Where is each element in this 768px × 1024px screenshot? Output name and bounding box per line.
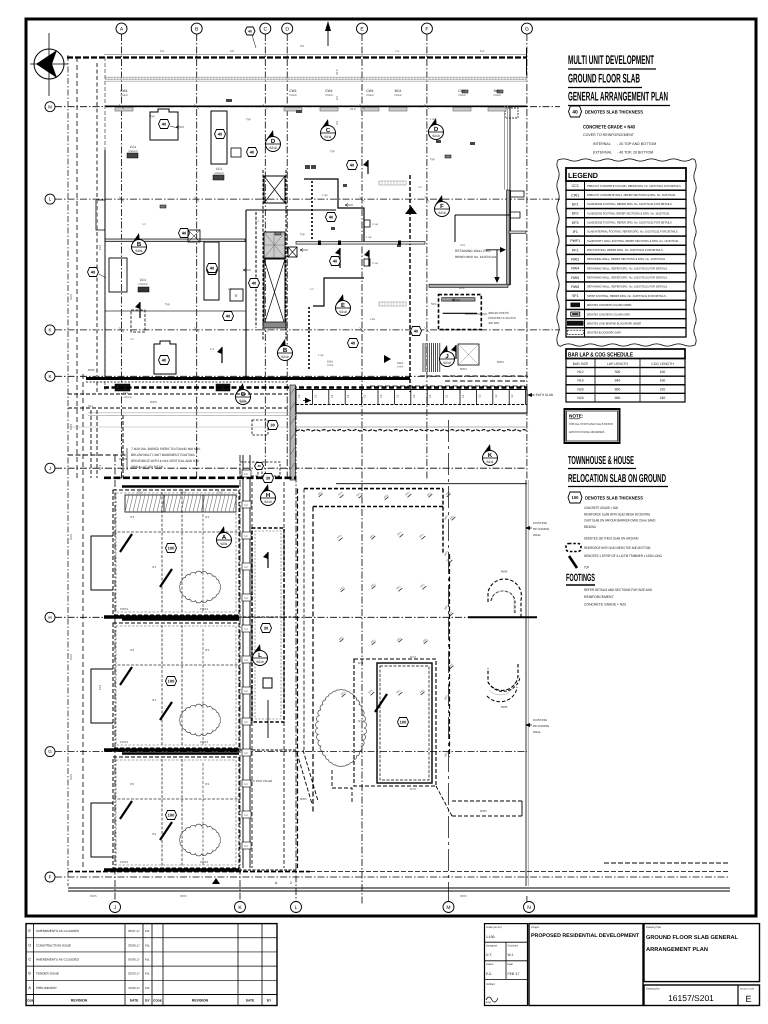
svg-text:6.4: 6.4 (480, 49, 484, 53)
svg-text:INTERNAL: INTERNAL (593, 142, 611, 146)
svg-text:09.06.17: 09.06.17 (128, 957, 140, 961)
legend row RW4 (566, 264, 686, 273)
rotated boundary texts (69, 244, 102, 780)
svg-text:RETAINING WALL, REFER DRG. No.: RETAINING WALL, REFER DRG. No. 16157/S10… (587, 285, 668, 289)
svg-text:CW1: CW1 (327, 360, 334, 364)
svg-text:- 40 TOP, 20 BOTTOM: - 40 TOP, 20 BOTTOM (617, 151, 653, 155)
svg-text:H: H (48, 615, 51, 620)
svg-text:EF3: EF3 (98, 684, 102, 690)
legend row #B1 (566, 300, 686, 309)
svg-text:RW5: RW5 (69, 293, 73, 300)
svg-text:RW5: RW5 (69, 533, 73, 540)
svg-text:P.B.: P.B. (145, 943, 150, 947)
svg-text:5.0: 5.0 (244, 504, 248, 507)
legend row EF3 (566, 218, 686, 227)
svg-text:Checked: Checked (508, 945, 519, 948)
svg-text:C2: C2 (314, 394, 317, 398)
svg-text:EXTERNAL: EXTERNAL (593, 151, 612, 155)
svg-text:RETAINING WALL, REFER SECTIONS: RETAINING WALL, REFER SECTIONS & DRG. No… (587, 257, 665, 261)
svg-text:CC1: CC1 (123, 392, 129, 395)
svg-text:5.0: 5.0 (244, 690, 248, 693)
svg-text:REVISION: REVISION (192, 999, 209, 1003)
svg-text:IF1: IF1 (205, 782, 210, 786)
legend row RW6 (566, 282, 686, 291)
svg-text:RW3: RW3 (150, 400, 157, 404)
path slab vertical ticks (242, 455, 244, 868)
main wall y378 (86, 377, 410, 380)
drawing number box (644, 985, 760, 1006)
svg-text:OVER: OVER (397, 366, 404, 369)
section markers upper (266, 130, 281, 152)
svg-text:40: 40 (329, 215, 334, 220)
svg-text:PATH SLAB: PATH SLAB (256, 779, 272, 783)
svg-text:1 tap: 1 tap (318, 354, 324, 357)
svg-text:40: 40 (351, 341, 356, 346)
svg-text:OVER: OVER (327, 364, 334, 367)
legend row #B2 (566, 309, 686, 318)
svg-text:RETAINING WALL RW2: RETAINING WALL RW2 (455, 249, 491, 253)
svg-text:C2: C2 (511, 394, 514, 398)
svg-text:1 tap: 1 tap (366, 236, 372, 239)
RW5 wing left (297, 750, 318, 804)
svg-text:WALL: WALL (533, 533, 541, 537)
extra door flags (451, 345, 456, 359)
revision table (26, 924, 277, 1006)
svg-text:5.0: 5.0 (130, 338, 134, 341)
building top edge (67, 56, 527, 58)
svg-text:240: 240 (660, 396, 666, 400)
svg-text:30: 30 (264, 626, 269, 631)
site boundary lines (67, 55, 69, 886)
bar row N12 (566, 368, 685, 377)
svg-text:CF2: CF2 (180, 491, 186, 495)
legend row SF1 (566, 291, 686, 300)
svg-text:S210: S210 (281, 355, 289, 359)
dim strip x337 (335, 69, 339, 125)
top hexagon 40 (245, 27, 255, 35)
svg-text:16157/S201: 16157/S201 (668, 993, 714, 1003)
svg-text:TOWNHOUSE & HOUSE: TOWNHOUSE & HOUSE (568, 455, 634, 467)
svg-text:EF3: EF3 (572, 221, 579, 225)
svg-text:S211: S211 (324, 135, 331, 139)
svg-text:IF1: IF1 (152, 565, 157, 569)
svg-text:REINFORCE WITH 4-N16 VERTICAL: REINFORCE WITH 4-N16 VERTICAL AND R10 (131, 459, 199, 463)
svg-text:EF1: EF1 (459, 286, 465, 290)
svg-text:P.B.: P.B. (145, 957, 150, 961)
room mid rect (204, 242, 219, 300)
open slab right dashed edge (442, 489, 444, 554)
svg-text:RW5: RW5 (88, 368, 95, 372)
svg-text:400 MIN: 400 MIN (488, 321, 499, 325)
svg-text:100: 100 (572, 495, 580, 500)
svg-text:D: D (285, 26, 289, 32)
svg-text:40: 40 (162, 358, 167, 363)
arrow in band (303, 400, 311, 402)
svg-text:DENOTES BLOCKWORK OVER.: DENOTES BLOCKWORK OVER. (587, 331, 622, 335)
left band to boundary (68, 393, 290, 395)
gray dashed wall x97 (96, 63, 98, 392)
wall at grid M (105, 105, 527, 107)
legend row EF2 (566, 209, 686, 218)
svg-text:RW4: RW4 (497, 360, 504, 364)
svg-text:PATH SLAB: PATH SLAB (536, 393, 553, 397)
svg-text:EF1: EF1 (572, 202, 579, 206)
svg-text:1:100: 1:100 (486, 935, 495, 939)
svg-text:C2: C2 (396, 394, 399, 398)
room column C2 (211, 111, 227, 164)
svg-text:PROPOSED RESIDENTIAL DEVELOPME: PROPOSED RESIDENTIAL DEVELOPMENT (531, 933, 640, 939)
svg-text:PWF1: PWF1 (200, 607, 209, 611)
svg-text:M: M (48, 104, 52, 109)
svg-text:REINFORCE No. 16157/S101: REINFORCE No. 16157/S101 (455, 255, 497, 259)
svg-text:RW4: RW4 (460, 367, 467, 371)
svg-text:Typ: Typ (165, 302, 170, 306)
legend row IF1 (566, 227, 686, 236)
svg-text:1 tap: 1 tap (322, 194, 328, 197)
legend row RW2 (566, 254, 686, 263)
svg-text:OVER: OVER (120, 94, 127, 97)
svg-text:RW5: RW5 (69, 653, 73, 660)
small bottom marks (212, 878, 220, 884)
svg-text:M: M (446, 905, 450, 911)
svg-text:40: 40 (252, 281, 257, 286)
svg-text:5.0: 5.0 (255, 220, 259, 223)
door jambs on y242 wall (318, 241, 321, 246)
svg-text:DT3: DT3 (410, 655, 416, 659)
svg-text:800: 800 (615, 387, 621, 391)
RW5 band right (452, 800, 522, 802)
bar lap schedule (566, 349, 685, 359)
building left edge (104, 57, 106, 390)
room column C1 (150, 109, 178, 140)
stepped party wall lower (296, 241, 346, 243)
svg-text:RETAINING WALL, REFER DRG. No.: RETAINING WALL, REFER DRG. No. 16157/S10… (587, 266, 668, 270)
svg-text:5.0: 5.0 (244, 721, 248, 724)
svg-text:5.0: 5.0 (244, 566, 248, 569)
svg-text:RW5: RW5 (480, 809, 487, 813)
svg-text:A: A (222, 534, 227, 541)
wall x246 (245, 210, 247, 378)
svg-text:5.0: 5.0 (335, 96, 339, 100)
svg-text:BO1: BO1 (395, 89, 402, 93)
svg-text:40: 40 (226, 314, 231, 319)
svg-text:N12: N12 (577, 370, 583, 374)
right RW5 line (604, 862, 728, 864)
svg-text:RW5: RW5 (240, 400, 247, 404)
svg-text:K: K (488, 452, 493, 459)
svg-text:40: 40 (91, 270, 96, 275)
svg-text:SF1: SF1 (88, 404, 94, 408)
svg-text:RW6: RW6 (501, 705, 508, 709)
svg-text:PWF1: PWF1 (200, 740, 209, 744)
svg-text:RW4: RW4 (571, 267, 579, 271)
bottom boundary (68, 871, 310, 873)
svg-text:CC1: CC1 (140, 278, 147, 282)
svg-text:1 tap: 1 tap (430, 118, 436, 121)
svg-text:C: C (326, 127, 331, 134)
svg-text:PWF1: PWF1 (120, 740, 129, 744)
RW2 top link (509, 231, 526, 234)
svg-text:RW2: RW2 (571, 258, 579, 262)
svg-text:S210: S210 (264, 500, 272, 504)
slab thickness hexagons (179, 229, 190, 238)
svg-text:Typ: Typ (150, 114, 155, 118)
svg-text:G: G (48, 749, 52, 754)
top thin edge (104, 54, 527, 56)
svg-text:06.07.17: 06.07.17 (128, 929, 140, 933)
svg-text:MULTI UNIT DEVELOPMENT: MULTI UNIT DEVELOPMENT (568, 53, 654, 67)
svg-text:640: 640 (615, 379, 621, 383)
path slab band (296, 390, 527, 414)
SF1 wall columns left (90, 410, 92, 478)
extra unit clouds (315, 689, 366, 766)
PF1 pad markers (317, 491, 456, 697)
svg-text:D.T.: D.T. (486, 953, 492, 957)
svg-text:PWF1: PWF1 (120, 860, 129, 864)
svg-text:100: 100 (168, 546, 175, 551)
stair J block (439, 295, 482, 330)
markers lower (217, 526, 232, 548)
small squares room (231, 148, 241, 157)
svg-text:SLAB EDGE FOOTING, REFER DRG.: SLAB EDGE FOOTING, REFER DRG. No. 16157/… (587, 220, 673, 224)
svg-text:TENDER ISSUE: TENDER ISSUE (36, 972, 59, 976)
svg-text:REFER DETAILS AND SECTIONS FOR: REFER DETAILS AND SECTIONS FOR SIZE AND (584, 588, 652, 592)
svg-text:DT2: DT2 (358, 719, 364, 723)
drawing title box (644, 924, 760, 982)
svg-text:ARCHITECTURAL DRAWINGS.: ARCHITECTURAL DRAWINGS. (569, 430, 605, 434)
svg-text:J: J (49, 466, 51, 471)
svg-text:1.2: 1.2 (228, 288, 232, 291)
svg-text:40: 40 (250, 150, 255, 155)
svg-text:CF2: CF2 (217, 491, 223, 495)
legend row PF1 (566, 245, 686, 254)
legend row PWF1 (566, 236, 686, 245)
svg-text:40: 40 (414, 329, 419, 334)
svg-text:100: 100 (400, 720, 407, 725)
svg-text:CONCRETE BLOCK: CONCRETE BLOCK (488, 316, 516, 320)
svg-text:TOP: TOP (584, 566, 590, 570)
legend row #B3 (566, 319, 686, 328)
legend row #B4 (566, 328, 686, 337)
svg-text:REINFORCE SLAB WITH SL82 MESH: REINFORCE SLAB WITH SL82 MESH IN CENTRE (584, 512, 651, 516)
svg-text:IF1: IF1 (130, 782, 135, 786)
bar row N16 (566, 376, 685, 385)
wall gray vertical above RW2 (504, 106, 506, 190)
wall x410 (409, 175, 411, 392)
svg-text:40: 40 (162, 122, 167, 127)
top band (light) (105, 76, 527, 78)
svg-text:GROUND FLOOR SLAB: GROUND FLOOR SLAB (568, 72, 640, 86)
svg-text:40: 40 (210, 266, 215, 271)
svg-text:EF3: EF3 (98, 464, 102, 470)
tab wall dashes (311, 181, 313, 241)
svg-text:190: 190 (660, 379, 666, 383)
serrated wall line (296, 430, 528, 432)
svg-text:RW5: RW5 (300, 797, 307, 801)
svg-text:K: K (48, 328, 51, 333)
svg-text:REVISION: REVISION (71, 999, 88, 1003)
svg-text:CODE: CODE (153, 999, 162, 1003)
svg-text:B: B (137, 241, 142, 248)
svg-text:C2: C2 (364, 394, 367, 398)
svg-text:OVER: OVER (458, 94, 465, 97)
svg-text:C tap: C tap (372, 223, 379, 226)
svg-text:5.0: 5.0 (310, 288, 314, 291)
room lower left (154, 341, 176, 374)
svg-text:D: D (271, 138, 276, 145)
thick H grid segment (468, 616, 537, 618)
svg-text:BO1: BO1 (494, 89, 501, 93)
svg-text:CONCRETE GRADE = N40: CONCRETE GRADE = N40 (583, 125, 635, 131)
svg-text:21.0: 21.0 (335, 69, 339, 75)
svg-text:5.0: 5.0 (230, 49, 234, 53)
svg-text:S210: S210 (269, 146, 277, 150)
tiny top dims (150, 44, 484, 351)
svg-text:B: B (28, 972, 31, 976)
top grid bubbles (116, 23, 127, 34)
svg-text:OVER: OVER (289, 94, 296, 97)
svg-text:D: D (434, 126, 439, 133)
legend row EF1 (566, 199, 686, 208)
svg-text:CAST SLAB ON VAPOUR BARRIER OV: CAST SLAB ON VAPOUR BARRIER OVER 25mm SA… (584, 519, 656, 523)
gray band below path slab (296, 413, 527, 415)
svg-text:BEDDING: BEDDING (584, 525, 596, 529)
RW2 horizontal (429, 284, 508, 287)
svg-text:Drawing Title: Drawing Title (646, 926, 662, 929)
scattered small label rects (160, 205, 166, 208)
vertical grid lines (121, 34, 123, 480)
svg-text:160: 160 (660, 370, 666, 374)
party wall y240 (105, 239, 245, 242)
townhouse units (113, 490, 239, 615)
svg-text:P.B.: P.B. (145, 929, 150, 933)
svg-text:F: F (425, 26, 428, 32)
svg-text:IF1: IF1 (152, 698, 157, 702)
svg-text:CC1: CC1 (572, 184, 579, 188)
svg-text:CF2: CF2 (137, 491, 143, 495)
svg-text:Drawing No: Drawing No (646, 988, 660, 991)
svg-text:SF1: SF1 (431, 302, 437, 306)
garden wall dashes y455 (68, 454, 128, 456)
svg-text:S210: S210 (432, 134, 440, 138)
svg-text:F: F (49, 875, 52, 880)
svg-text:UNDER: UNDER (214, 172, 223, 175)
svg-text:Date: Date (508, 963, 514, 966)
svg-text:F: F (440, 203, 444, 210)
svg-text:BELOW MULTI UNIT BASEMENT FOOT: BELOW MULTI UNIT BASEMENT FOOTING (131, 453, 195, 457)
legend row CC1 (566, 181, 686, 190)
svg-text:RW5: RW5 (460, 894, 467, 898)
hexagon 40 denotes (569, 106, 582, 117)
townhouse top wall (104, 476, 296, 479)
RW4 dashes (420, 375, 527, 377)
svg-text:S210: S210 (339, 310, 347, 314)
svg-text:S210: S210 (256, 660, 264, 664)
svg-text:FOR ALL STEPS AND FALLS REFER: FOR ALL STEPS AND FALLS REFER (569, 422, 614, 426)
svg-text:RW5: RW5 (69, 773, 73, 780)
svg-text:40: 40 (218, 132, 223, 137)
svg-text:CW1: CW1 (120, 89, 128, 93)
RW6 arc 1 (arch) (488, 579, 521, 617)
svg-text:Typ: Typ (330, 149, 335, 153)
svg-text:RW5: RW5 (90, 894, 97, 898)
X box (288, 247, 297, 257)
svg-text:Eng.: Eng. (486, 1001, 492, 1004)
svg-text:PWF1: PWF1 (200, 860, 209, 864)
misc small marks upper building (226, 99, 475, 247)
svg-text:L: L (258, 652, 262, 659)
retaining wall RW2 vertical (507, 190, 510, 285)
svg-text:OVER: OVER (325, 94, 332, 97)
svg-text:LAP LENGTH: LAP LENGTH (607, 362, 629, 366)
svg-text:EF2: EF2 (572, 212, 579, 216)
stepped party wall upper (304, 179, 364, 242)
svg-text:220: 220 (660, 387, 666, 391)
svg-text:C2: C2 (347, 394, 350, 398)
svg-text:C2: C2 (429, 394, 432, 398)
svg-text:DENOTES LOAD BEARING BLOCKWORK: DENOTES LOAD BEARING BLOCKWORK UNDER (587, 321, 641, 325)
svg-text:SLAB PARTY WALL FOOTING, REFER: SLAB PARTY WALL FOOTING, REFER SECTIONS … (587, 239, 679, 243)
horizontal grid lines (55, 106, 560, 108)
svg-text:GENERAL ARRANGEMENT PLAN: GENERAL ARRANGEMENT PLAN (568, 90, 668, 104)
svg-text:RETAINING WALL, REFER DRG. No.: RETAINING WALL, REFER DRG. No. 16157/S10… (587, 276, 668, 280)
trimmer symbol (569, 556, 577, 568)
leader (170, 126, 178, 128)
svg-text:CONCRETE GRADE = N25: CONCRETE GRADE = N25 (584, 603, 626, 607)
svg-text:ARRANGEMENT PLAN: ARRANGEMENT PLAN (646, 947, 708, 953)
svg-text:CONSTRUCTION ISSUE: CONSTRUCTION ISSUE (36, 943, 71, 947)
svg-text:STRIP FOOTING, REFER DRG. No.: STRIP FOOTING, REFER DRG. No. 16157/S211… (587, 294, 667, 298)
svg-text:DATE: DATE (246, 999, 254, 1003)
svg-text:G: G (525, 26, 529, 32)
svg-text:CONCRETE GRADE = N20: CONCRETE GRADE = N20 (584, 506, 618, 510)
svg-text:B: B (283, 347, 288, 354)
svg-text:W.J.: W.J. (508, 953, 515, 957)
svg-text:N: N (527, 905, 531, 911)
svg-text:40: 40 (248, 29, 252, 33)
svg-text:D: D (28, 943, 31, 947)
svg-text:PF1: PF1 (572, 248, 579, 252)
svg-text:Verified: Verified (486, 983, 495, 986)
svg-text:OVER: OVER (493, 94, 500, 97)
svg-text:UNDER: UNDER (128, 150, 137, 153)
svg-text:CC1: CC1 (216, 167, 223, 171)
svg-text:- 20 TOP AND BOTTOM: - 20 TOP AND BOTTOM (617, 142, 656, 146)
svg-text:CW1: CW1 (458, 89, 466, 93)
svg-text:C: C (263, 26, 267, 32)
RW6 arc 2 (bowl) (488, 664, 518, 690)
svg-text:UNDER: UNDER (123, 396, 132, 399)
svg-text:E: E (341, 302, 345, 309)
svg-text:SPIRAL AT 250 PITCH: SPIRAL AT 250 PITCH (131, 465, 164, 469)
svg-text:5.0: 5.0 (244, 814, 248, 817)
svg-text:C: C (28, 957, 31, 961)
svg-text:7.2: 7.2 (395, 49, 399, 53)
svg-text:C1B: C1B (370, 318, 375, 321)
leader arrows (176, 126, 460, 302)
dashed slab symbol (566, 544, 581, 552)
svg-text:NOTE:: NOTE: (569, 414, 584, 419)
svg-text:P.B.: P.B. (145, 972, 150, 976)
legend wavy border (557, 159, 696, 346)
lower vertical grid lines (114, 455, 116, 902)
svg-text:C2: C2 (298, 394, 301, 398)
dashed wall x256 (255, 212, 257, 328)
wall y242 long (296, 242, 425, 245)
top section arrow (327, 28, 329, 46)
project box (529, 924, 643, 1006)
svg-text:PWF1: PWF1 (120, 607, 129, 611)
